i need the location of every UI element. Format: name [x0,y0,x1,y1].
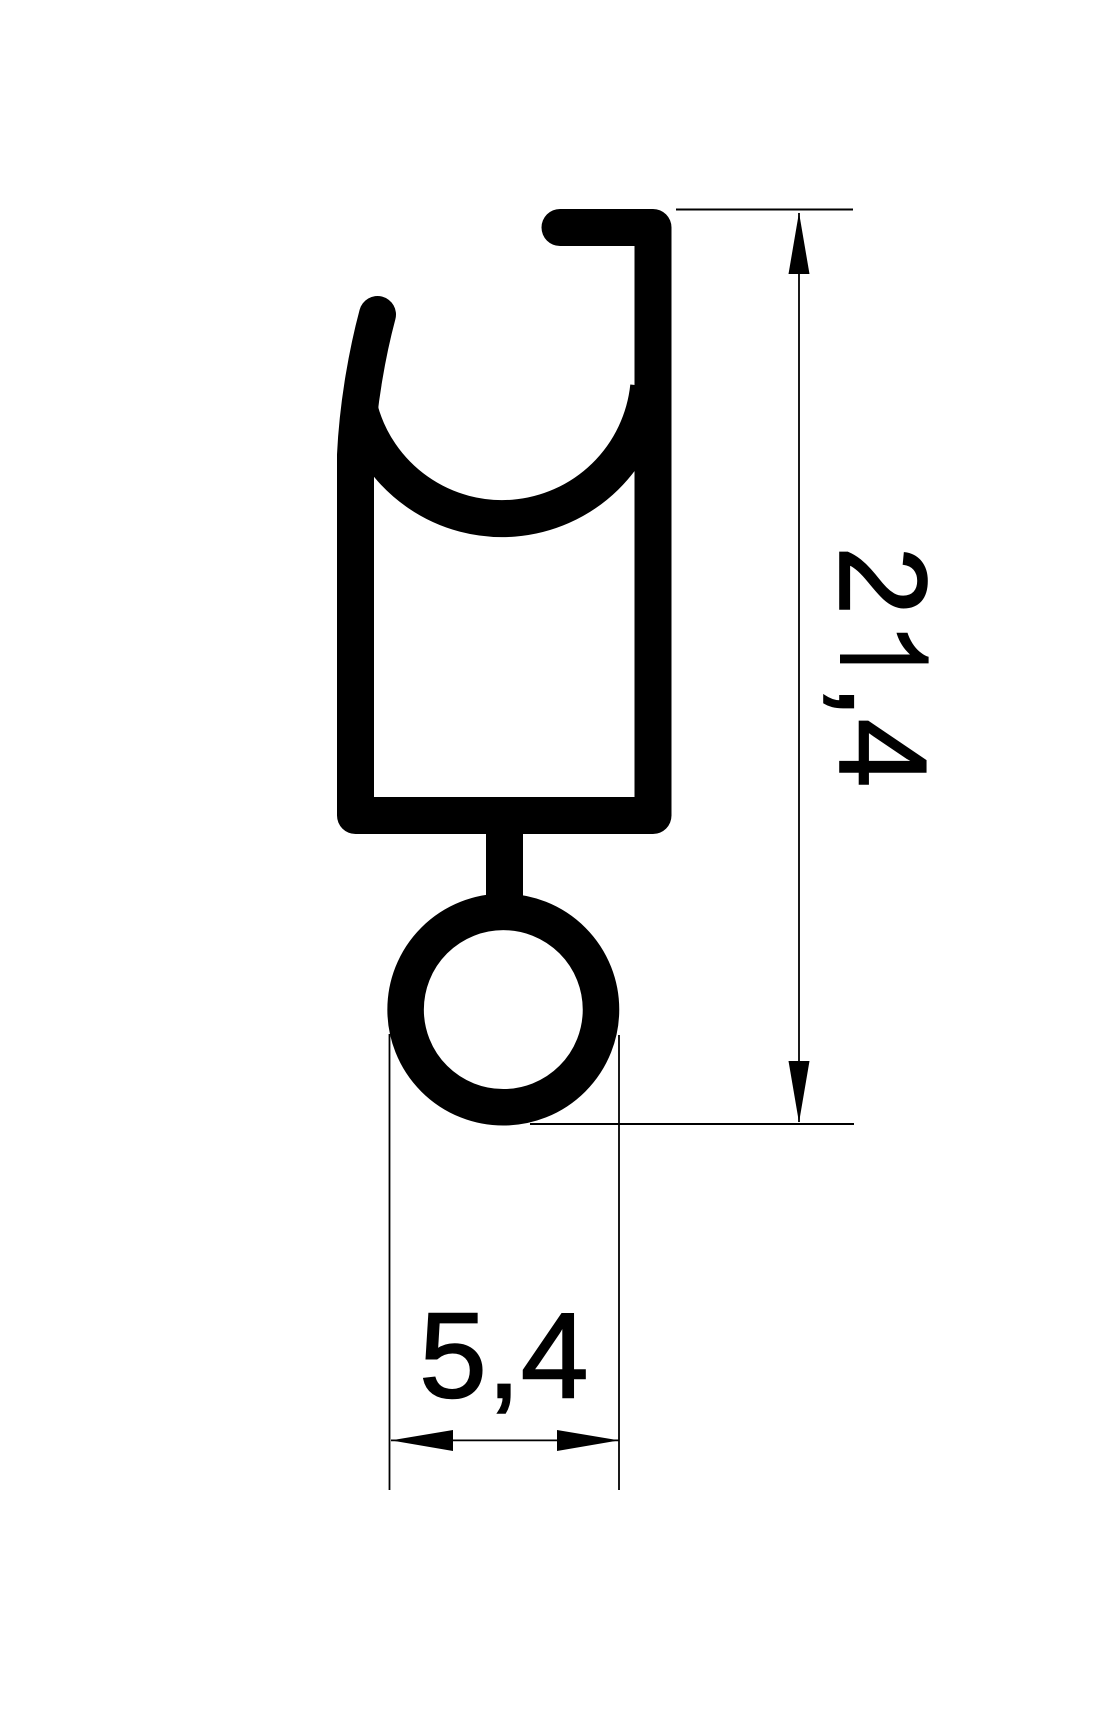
svg-text:2: 2 [813,546,951,615]
svg-text:5,4: 5,4 [419,1288,589,1424]
svg-text:,4: ,4 [813,684,951,787]
